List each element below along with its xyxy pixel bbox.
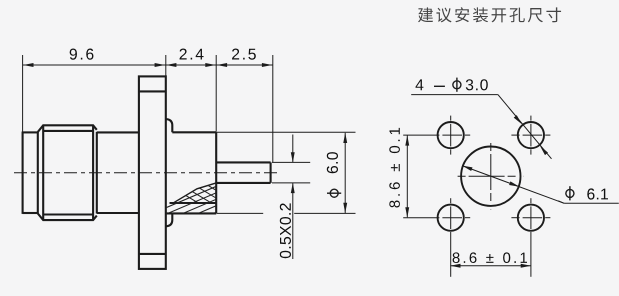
dimension 0.5X0.2 (272, 135, 310, 260)
dimension 2.5 arrows (217, 63, 227, 67)
dimension 8.6+-0.1 bottom horizontal (450, 265, 530, 267)
dimension phi6.0 (216, 132, 355, 213)
dimension 2.4 arrows (166, 63, 176, 67)
label 4-phi3.0 (416, 79, 424, 90)
solder tab (216, 161, 270, 163)
section slot edge (170, 202, 217, 204)
step fillet bottom (166, 213, 173, 226)
dimension 9.6 (dim line row) (23, 64, 273, 66)
hex coupling nut (37, 132, 39, 214)
barrel hex-to-flange (97, 131, 139, 133)
connector body outline (23, 76, 271, 269)
dim texts 9.6 / 2.4 / 2.5 (70, 49, 94, 60)
phi6.0 value text (327, 189, 341, 197)
label phi6.1 (566, 186, 574, 200)
center hole phi6.1 (461, 147, 520, 206)
hole BL (438, 205, 464, 231)
hole BR (518, 205, 544, 231)
dielectric taper edge (174, 183, 217, 203)
hole crosshairs (403, 116, 550, 277)
dimension 8.6+-0.1 left vertical (406, 136, 408, 218)
rear barrel (172, 131, 216, 133)
center hole crosshair (458, 143, 524, 209)
hole TR (518, 122, 544, 148)
front cap (22, 132, 24, 214)
flange (139, 76, 166, 269)
hole TL (438, 122, 464, 148)
title 建议安装开孔尺寸 (418, 7, 561, 22)
step fillet top (166, 119, 173, 132)
centerline (14, 172, 281, 174)
section hatching (147, 182, 394, 216)
extension lines (left view) (23, 55, 273, 162)
